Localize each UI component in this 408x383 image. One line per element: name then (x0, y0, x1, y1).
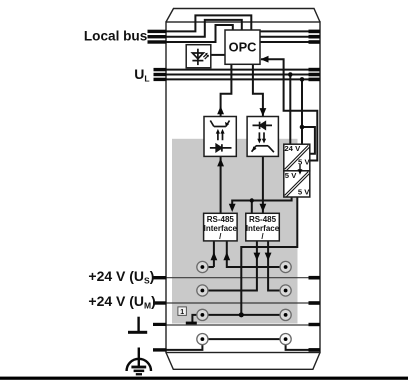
arrow into OPC right (261, 56, 269, 63)
bottom rule (0, 377, 408, 380)
arrow down RS485 right pin2 (265, 253, 272, 261)
potential rail line US (167, 277, 320, 279)
RS-485 interface box left (204, 213, 238, 241)
terminal circle row2 right (280, 285, 291, 296)
UL terminal bars left (154, 68, 167, 71)
terminal circle row1 right (280, 261, 291, 272)
phototransistor symbol right bottom (252, 146, 274, 152)
wire row3 to FE bond (192, 315, 202, 323)
svg-text:24 V: 24 V (284, 144, 301, 153)
UL terminal bars right (309, 68, 321, 72)
wire terminal row3 (202, 314, 285, 316)
svg-text:RS-485: RS-485 (249, 215, 277, 224)
terminal circle row3 right (280, 309, 291, 320)
PE terminal bar left (153, 348, 167, 351)
wire local bus out 3 (260, 41, 320, 43)
FE terminal bar left (153, 323, 167, 326)
OPC box U1 (225, 30, 260, 64)
potential rail line FE (167, 324, 320, 326)
arrow down into RS485 left (5V) (229, 204, 236, 212)
wire row4 to PE right (286, 339, 309, 350)
wire OPC to optocoupler left (221, 64, 232, 117)
arrow up RS485 left pin2 (223, 252, 230, 260)
wire local bus loop 1 (167, 15, 252, 31)
DC converter 24V-5V (284, 144, 310, 171)
FE bond bar (186, 322, 197, 325)
junction dot line3 branch (300, 125, 305, 130)
wire terminal row4 (202, 338, 285, 340)
module outline front face (166, 22, 320, 353)
wire UL line3 branch to converter right (302, 127, 315, 154)
wire RS485 right pin1 to left terminal row2 (202, 241, 257, 291)
protective earth symbol (138, 348, 140, 367)
functional earth symbol (137, 317, 139, 331)
wire LED to OPC (211, 54, 225, 56)
arrow up RS485 left pin1 (211, 252, 218, 260)
wire local bus loop 2 (167, 20, 242, 37)
wire UL line3 to converter top (301, 79, 303, 144)
terminal circle row4 right (280, 334, 291, 345)
arrow up optocoupler1 feed (217, 158, 224, 166)
light arrows down right (257, 132, 266, 143)
wire row4 to PE left (167, 339, 203, 350)
arrow down into optocoupler right (260, 108, 267, 116)
potential rail line UM (167, 302, 320, 304)
svg-text:1: 1 (180, 309, 184, 316)
US terminal bar left (153, 276, 167, 279)
terminal circle row4 left (197, 334, 208, 345)
wire UL line 3 (167, 78, 320, 80)
UM terminal bar right (309, 301, 321, 305)
svg-text:Local bus: Local bus (84, 29, 147, 44)
arrow down into RS485 right (260, 204, 267, 212)
UM terminal bar left (153, 301, 167, 304)
marker 1 box (178, 307, 187, 316)
junction dot 5V branch (250, 198, 254, 202)
junction dot UL line2 (288, 72, 293, 77)
arrow down RS485 right pin1 (254, 253, 261, 261)
wire isolated ground to terminal row3 (241, 198, 297, 315)
svg-text:OPC: OPC (229, 40, 257, 55)
local bus terminal bars left (148, 30, 167, 33)
US terminal bar right (309, 276, 321, 280)
LED symbol (192, 49, 209, 65)
wire local bus out 2 (260, 36, 320, 38)
phototransistor symbol left top (210, 121, 229, 127)
wire local bus out 1 (260, 30, 320, 32)
arrow up into optocoupler left (217, 106, 224, 114)
PE terminal bar right (309, 348, 321, 352)
module top face (166, 9, 320, 23)
wire UL line2 to converter top (289, 75, 291, 145)
terminal circle row1 left (197, 261, 208, 272)
shaded isolation area (172, 139, 298, 324)
LED diode symbol left bottom (210, 144, 232, 151)
wire OPC feedback from supply (261, 59, 317, 160)
light arrows up left (216, 129, 225, 140)
wire UL line 2 (167, 74, 320, 76)
terminal circle row3 left (197, 309, 208, 320)
LED indicator box (186, 45, 211, 68)
wire optocoupler2 to RS485 right (262, 156, 264, 213)
wire 5V supply to RS485 interfaces (232, 198, 291, 207)
svg-text:5 V: 5 V (285, 171, 297, 180)
LED diode symbol right top (pointing left) (253, 122, 273, 129)
junction dot ground row3 (239, 312, 244, 317)
svg-text:RS-485: RS-485 (207, 215, 235, 224)
DC converter 5V-5V (284, 171, 310, 197)
wire RS485 left pin2 to right terminal row1 (227, 241, 286, 267)
RS-485 interface box right (246, 213, 279, 241)
junction dot UL line3 (300, 77, 305, 82)
wire OPC to optocoupler right (253, 64, 263, 117)
optocoupler box right (247, 117, 278, 157)
arrow converter1 to converter2 (299, 165, 301, 170)
FE terminal bar right (309, 323, 321, 326)
module bottom taper (166, 353, 320, 370)
terminal circle row2 left (197, 285, 208, 296)
optocoupler box left (204, 117, 236, 157)
wire local bus loop 3 (167, 25, 233, 42)
wire RS485 right pin2 to right terminal row2 (268, 241, 286, 291)
wire 5V branch to RS485 right top (251, 201, 253, 214)
svg-text:5 V: 5 V (298, 187, 310, 196)
wire RS485 left pin1 to terminal (202, 241, 214, 267)
local bus terminal bars right (309, 30, 321, 34)
wire UL line 1 (167, 69, 320, 71)
wire optocoupler1 to RS485 left (220, 156, 222, 213)
